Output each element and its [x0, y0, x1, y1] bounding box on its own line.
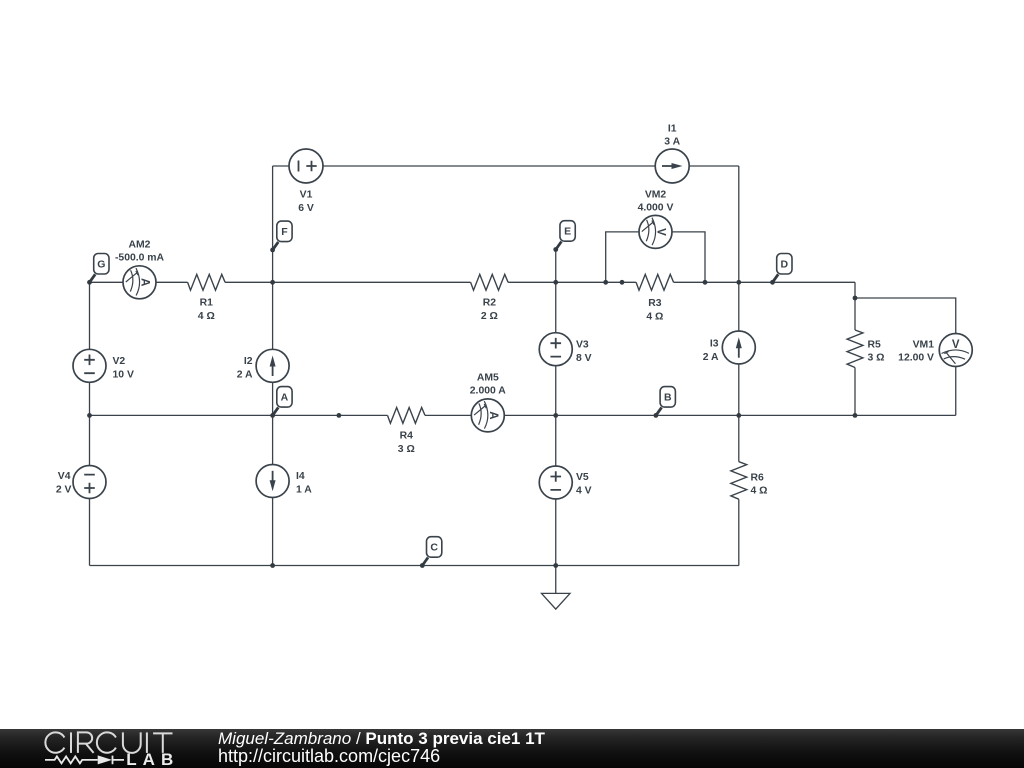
wire F/A column	[272, 166, 274, 566]
svg-text:2 Ω: 2 Ω	[481, 311, 498, 322]
voltage source V5	[539, 466, 572, 499]
node flag C	[420, 537, 442, 568]
junction I3 column x main row	[736, 280, 741, 285]
footer bar	[0, 729, 1024, 768]
CircuitLab wordmark CIRCUIT	[45, 732, 172, 753]
wire top row	[273, 165, 739, 167]
junction VM2 right branch	[703, 280, 708, 285]
svg-text:I1: I1	[668, 123, 677, 134]
svg-text:4 Ω: 4 Ω	[751, 486, 768, 497]
wire I3/R6 column	[738, 166, 740, 566]
resistor R1	[188, 274, 226, 290]
resistor R6	[731, 462, 747, 500]
svg-text:A: A	[487, 411, 499, 419]
svg-text:R4: R4	[400, 431, 414, 442]
svg-text:R2: R2	[483, 298, 497, 309]
wire R5 column	[854, 282, 856, 415]
svg-text:R6: R6	[751, 473, 765, 484]
svg-text:VM2: VM2	[645, 190, 667, 201]
svg-text:R1: R1	[200, 298, 214, 309]
junction left column x row AB	[87, 413, 92, 418]
svg-text:3 Ω: 3 Ω	[398, 444, 415, 455]
voltage source V2	[73, 349, 106, 382]
svg-text:E: E	[564, 226, 571, 238]
svg-text:A: A	[139, 278, 151, 286]
svg-text:6 V: 6 V	[298, 203, 314, 214]
voltmeter VM1	[939, 334, 972, 367]
current source I3	[722, 331, 755, 364]
svg-text:4.000 V: 4.000 V	[638, 202, 674, 213]
voltage source V1	[289, 149, 323, 183]
junction node A	[270, 413, 275, 418]
svg-text:8 V: 8 V	[576, 353, 592, 364]
wire bottom row	[90, 565, 739, 567]
svg-text:B: B	[664, 392, 672, 404]
resistor R4	[388, 408, 426, 424]
svg-text:C: C	[430, 542, 438, 554]
svg-text:2 A: 2 A	[703, 352, 719, 363]
svg-text:2 V: 2 V	[56, 485, 72, 496]
svg-text:V: V	[952, 339, 960, 351]
junction F column x main row	[270, 280, 275, 285]
svg-text:V5: V5	[576, 472, 589, 483]
current source I1	[655, 149, 689, 183]
svg-text:I2: I2	[244, 356, 253, 367]
svg-text:V3: V3	[576, 340, 589, 351]
current source I4	[256, 465, 289, 498]
svg-text:V2: V2	[113, 356, 126, 367]
wire VM2 branch	[606, 232, 705, 282]
junction E column x row AB	[553, 413, 558, 418]
svg-text:LAB: LAB	[126, 750, 179, 768]
svg-text:V4: V4	[58, 471, 71, 482]
junction VM2 left branch	[603, 280, 608, 285]
node flag E	[553, 221, 575, 252]
junction R5 column x row AB	[853, 413, 858, 418]
wire main row	[90, 281, 856, 283]
svg-text:V: V	[655, 228, 667, 236]
svg-text:-500.0 mA: -500.0 mA	[115, 252, 165, 263]
junction ground x bottom row	[553, 563, 558, 568]
svg-text:R5: R5	[868, 340, 882, 351]
ground	[542, 566, 571, 610]
ammeter AM2	[123, 266, 156, 299]
wire E column	[555, 250, 557, 566]
junction row AB mid	[337, 413, 342, 418]
svg-text:AM2: AM2	[129, 240, 151, 251]
svg-text:R3: R3	[648, 298, 662, 309]
svg-text:2.000 A: 2.000 A	[470, 386, 507, 397]
ammeter AM5	[471, 399, 504, 432]
svg-text:3 Ω: 3 Ω	[868, 353, 885, 364]
resistor R3	[636, 274, 674, 290]
resistor R5	[847, 330, 863, 368]
junction R3 left terminal	[620, 280, 625, 285]
svg-text:3 A: 3 A	[664, 137, 680, 148]
current source I2	[256, 349, 289, 382]
svg-text:4 Ω: 4 Ω	[646, 312, 663, 323]
svg-text:12.00 V: 12.00 V	[898, 353, 934, 364]
node flag F	[270, 221, 292, 252]
junction E column x main row	[553, 280, 558, 285]
voltage source V4	[73, 466, 106, 499]
svg-text:F: F	[281, 226, 288, 238]
footer url	[218, 748, 440, 765]
svg-text:G: G	[97, 259, 105, 271]
svg-text:VM1: VM1	[913, 340, 935, 351]
svg-text:4 Ω: 4 Ω	[198, 311, 215, 322]
node flag B	[654, 387, 676, 418]
voltage source V3	[539, 333, 572, 366]
svg-text:A: A	[281, 392, 289, 404]
voltmeter VM2	[639, 215, 672, 248]
wire A/B row	[90, 414, 956, 416]
node flag G	[87, 254, 109, 285]
svg-text:2 A: 2 A	[237, 370, 253, 381]
logo resistor-diode line	[45, 756, 124, 765]
junction R5 column x VM1 link	[853, 296, 858, 301]
svg-text:10 V: 10 V	[113, 370, 134, 381]
svg-text:I3: I3	[710, 339, 719, 350]
wire left column	[89, 282, 91, 565]
svg-text:1 A: 1 A	[296, 485, 312, 496]
svg-text:AM5: AM5	[477, 373, 499, 384]
svg-text:V1: V1	[300, 190, 313, 201]
svg-text:4 V: 4 V	[576, 486, 592, 497]
svg-text:I4: I4	[296, 471, 305, 482]
node flag A	[273, 387, 292, 416]
footer title	[218, 730, 545, 747]
junction R6 column x row AB	[736, 413, 741, 418]
junction F column x bottom row	[270, 563, 275, 568]
svg-text:D: D	[781, 259, 789, 271]
node flag D	[770, 254, 792, 285]
resistor R2	[471, 274, 509, 290]
wire VM1 branch	[855, 298, 956, 415]
